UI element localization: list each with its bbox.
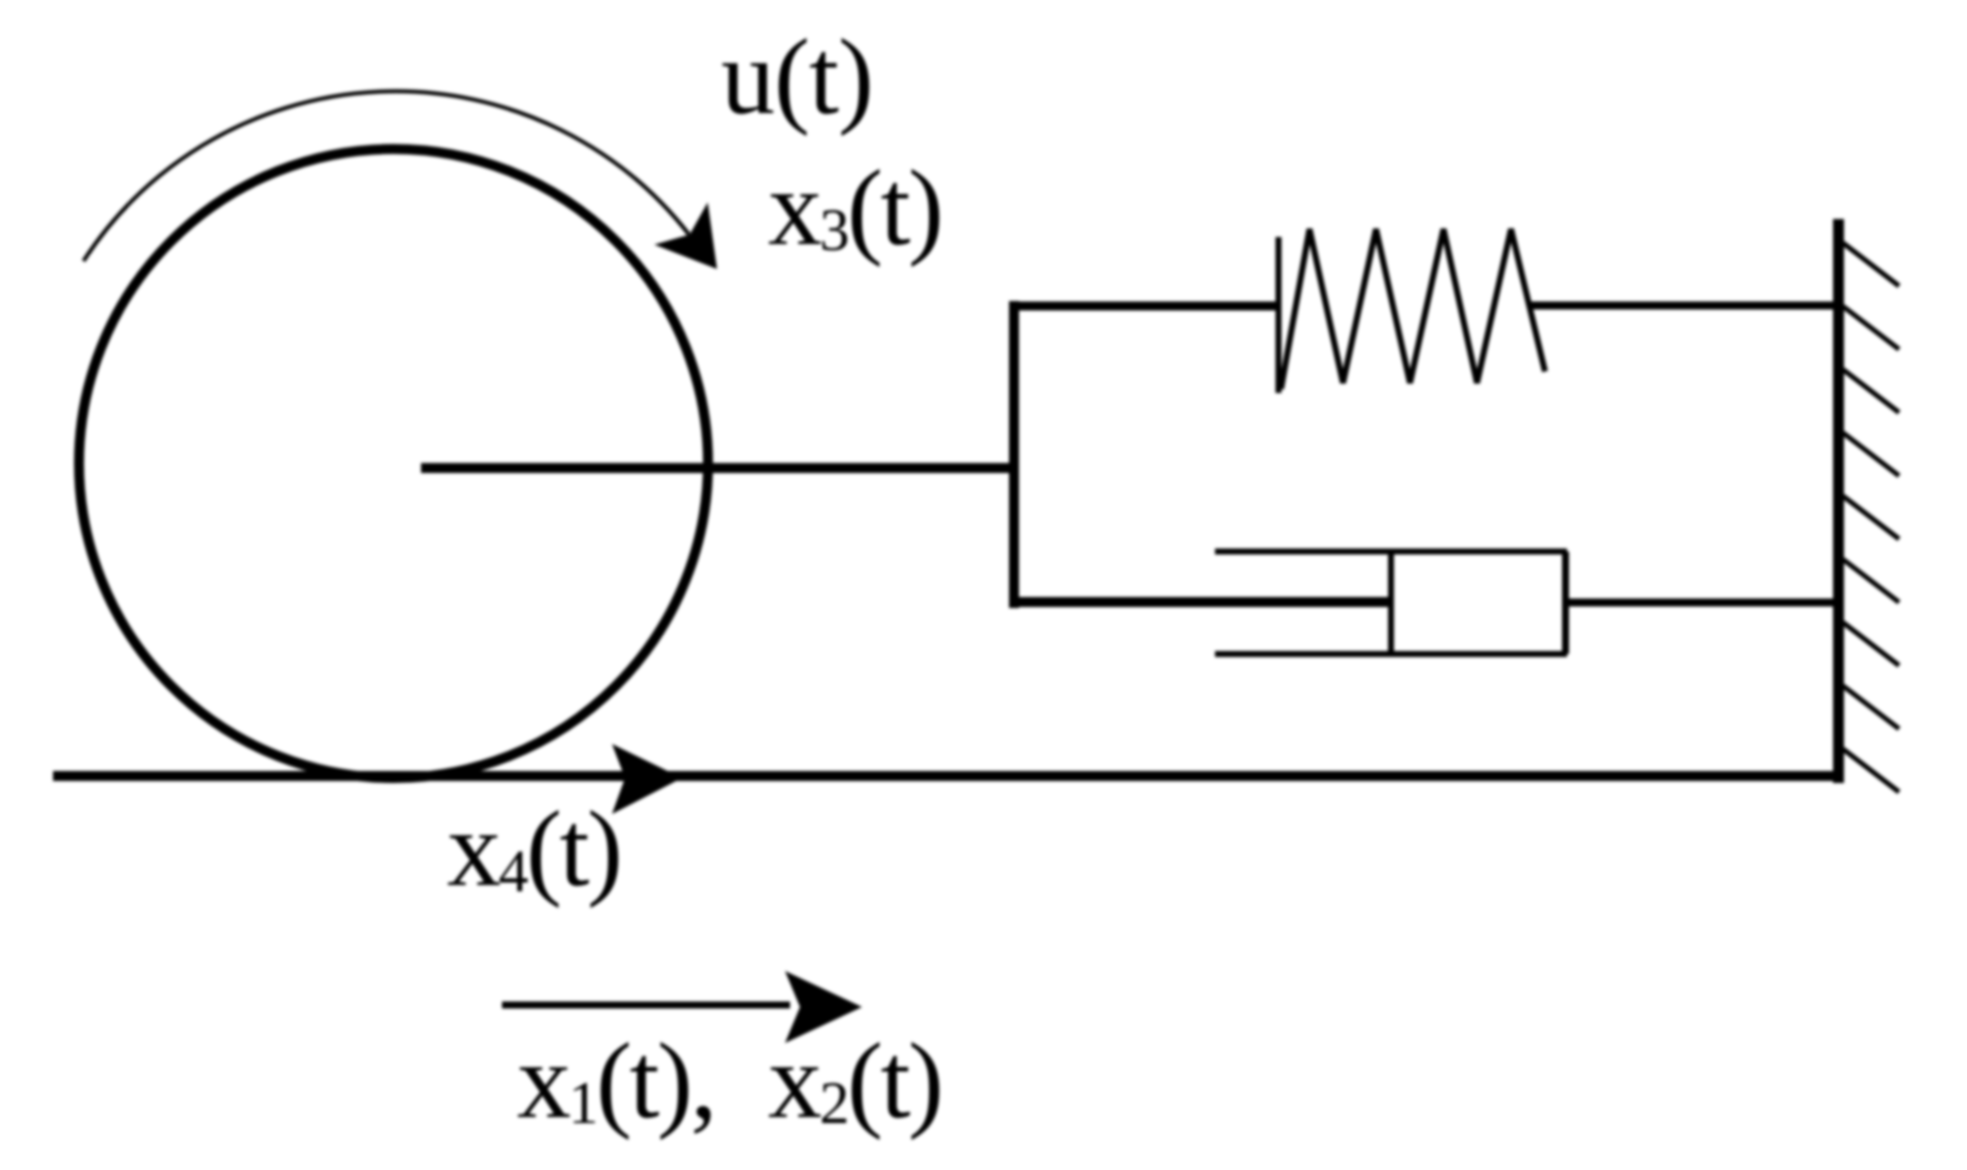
svg-text:x2(t): x2(t) — [768, 1022, 941, 1141]
damper piston plate — [1388, 552, 1394, 654]
velocity arrow line — [502, 1002, 790, 1009]
svg-text:x1(t),: x1(t), — [517, 1022, 715, 1141]
damper cylinder bottom — [1215, 651, 1567, 657]
spring zigzag — [1281, 229, 1545, 389]
wire spring to wall — [1528, 302, 1842, 310]
wire damper to wall — [1565, 599, 1842, 607]
damper rod — [1010, 597, 1391, 607]
svg-text:x4(t): x4(t) — [447, 790, 620, 909]
wall line — [1833, 219, 1844, 783]
wire top branch — [1009, 302, 1280, 311]
damper cylinder top — [1215, 549, 1567, 555]
svg-text:x3(t): x3(t) — [768, 149, 941, 268]
node bracket vertical — [1009, 301, 1019, 608]
svg-text:u(t): u(t) — [721, 18, 873, 137]
ground arrowhead x4 — [612, 744, 682, 814]
rotation arrow arc — [84, 91, 690, 261]
wall hatching — [1843, 243, 1899, 792]
ground line — [53, 771, 1843, 781]
spring left bar — [1276, 237, 1282, 393]
damper cylinder right edge — [1562, 552, 1569, 655]
velocity arrowhead — [785, 971, 862, 1043]
wheel (rolling disk) — [79, 149, 708, 778]
rotation arrowhead — [654, 202, 717, 269]
wire from wheel center — [421, 463, 1018, 473]
